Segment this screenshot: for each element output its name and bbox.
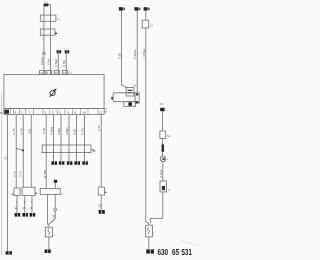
wire — [31, 196, 33, 213]
lamp box L1 — [14, 188, 20, 196]
svg-text:1.5rtsw: 1.5rtsw — [133, 48, 137, 59]
svg-text:5A: 5A — [167, 134, 170, 138]
connector A top — [119, 7, 125, 10]
wire label c5 lower — [44, 170, 48, 177]
control unit box — [4, 74, 104, 108]
lamp box L2 — [22, 187, 35, 195]
top pin connector 2 — [46, 71, 51, 75]
terminal stub — [55, 32, 57, 34]
ground connector pair 1 — [15, 213, 21, 217]
dark label — [52, 214, 56, 218]
wire — [161, 111, 163, 131]
wire — [43, 6, 45, 74]
wire label — [54, 59, 58, 67]
junction dot — [22, 149, 24, 151]
motor box M — [98, 187, 104, 195]
svg-text:0.75: 0.75 — [42, 128, 46, 134]
stub — [105, 191, 108, 193]
svg-text:31: 31 — [29, 206, 33, 210]
svg-text:0.5: 0.5 — [28, 129, 32, 134]
svg-text:31: 31 — [4, 156, 8, 160]
wire A label — [117, 52, 121, 58]
svg-text:0.75: 0.75 — [19, 128, 23, 134]
ground connector pair 3 — [30, 213, 36, 217]
strip stub — [91, 150, 94, 153]
wire label — [40, 56, 44, 65]
svg-text:0.5sw: 0.5sw — [159, 169, 163, 178]
stub L1 — [11, 193, 14, 195]
switch box S2 — [40, 188, 60, 194]
wire c10 — [84, 115, 86, 161]
top pin connector 3 — [54, 71, 59, 75]
svg-text:X12: X12 — [159, 103, 164, 106]
relay upper box — [126, 88, 134, 96]
wire B label — [133, 48, 137, 59]
svg-text:31: 31 — [22, 206, 26, 210]
wire C — [146, 28, 149, 225]
sensor box right — [160, 181, 167, 192]
wire c1 — [6, 115, 8, 252]
wire — [161, 139, 163, 156]
battery + terminal label — [45, 1, 49, 4]
wire C upper — [145, 11, 147, 21]
svg-text:0.75: 0.75 — [12, 171, 16, 177]
wire — [148, 237, 150, 249]
page left edge artifact — [1, 93, 3, 255]
top pin numbers — [40, 71, 66, 75]
wire c5 — [45, 115, 47, 189]
wire — [57, 53, 59, 74]
fuse F2 — [40, 29, 55, 35]
relay contacts — [128, 90, 133, 93]
wire label c4 — [28, 129, 32, 134]
wire label c6 — [50, 126, 54, 135]
ground connector pair — [45, 249, 51, 253]
top pin connector 4 — [62, 71, 67, 75]
svg-text:0.5gn: 0.5gn — [65, 127, 69, 135]
wire label — [97, 125, 101, 131]
dark label — [98, 204, 102, 208]
wire — [162, 162, 164, 181]
wire label — [62, 60, 66, 67]
svg-text:0.75: 0.75 — [12, 128, 16, 134]
svg-text:63065531: 63065531 — [157, 247, 191, 257]
ground box right — [146, 225, 153, 237]
svg-text:0.5br: 0.5br — [57, 128, 61, 135]
wire label — [159, 169, 163, 178]
svg-text:0.5rt: 0.5rt — [73, 129, 77, 135]
wire c4 — [30, 115, 32, 188]
connector K3 — [57, 50, 62, 53]
svg-text:0.5sw: 0.5sw — [40, 56, 44, 65]
wire below S2 b — [54, 194, 56, 207]
svg-text:0.5s: 0.5s — [117, 52, 121, 58]
black pin in attachment — [129, 102, 132, 105]
top pin connector 1 — [39, 71, 44, 75]
icon inside control unit — [50, 89, 57, 97]
svg-text:0.5sw: 0.5sw — [50, 126, 54, 135]
connector strip box — [42, 145, 91, 153]
corner pin wire — [100, 115, 102, 187]
svg-text:o +: o + — [45, 1, 49, 4]
fuse box C — [142, 20, 149, 28]
connector pair c6 — [51, 161, 57, 165]
wire — [16, 196, 18, 213]
wire c2 — [15, 115, 17, 188]
svg-text:F1: F1 — [57, 18, 61, 22]
connector C top — [144, 7, 150, 10]
part number — [157, 247, 191, 257]
svg-text:2.5rt: 2.5rt — [47, 59, 51, 65]
wire label c7 — [57, 128, 61, 135]
wire c9 — [76, 115, 78, 161]
bridge wire c2-c3 — [16, 148, 23, 150]
fuse box bottom left — [45, 227, 52, 237]
connector right chain — [160, 108, 164, 111]
svg-text:31: 31 — [14, 206, 18, 210]
svg-text:0.75: 0.75 — [97, 125, 101, 131]
connector pair c9 — [74, 161, 80, 165]
svg-text:0.5sw: 0.5sw — [142, 48, 146, 57]
wire label c8 — [65, 127, 69, 135]
stub L2 — [35, 192, 37, 194]
wire c7 — [60, 115, 62, 161]
wire label — [47, 59, 51, 65]
wire label c10 — [81, 127, 85, 135]
merge jog — [49, 211, 55, 224]
dark mark inside — [162, 186, 165, 190]
pin 1 dark marker — [4, 110, 9, 114]
wire C label — [142, 48, 146, 57]
bulb symbol — [160, 156, 166, 162]
wire below M — [100, 195, 102, 210]
connector K4 — [65, 50, 70, 53]
label tick c1 — [4, 156, 8, 160]
wire label c3 — [18, 171, 22, 177]
ground connector bottom left — [6, 251, 12, 254]
corner pin ticks — [104, 109, 107, 112]
fuse squiggle — [48, 228, 50, 235]
connector pair c7 — [59, 161, 65, 165]
wire B — [136, 11, 138, 93]
pin cell dividers — [11, 109, 98, 115]
wire A — [121, 11, 127, 88]
wire c6 — [53, 115, 55, 161]
relay right attachment — [135, 93, 139, 104]
node diamond — [54, 208, 57, 212]
connector right chain top label — [159, 103, 164, 106]
wire below S2 — [47, 194, 49, 224]
dark sleeve label — [162, 144, 165, 152]
svg-text:13: 13 — [99, 110, 103, 114]
wire — [150, 192, 163, 223]
pin strip bottom — [4, 109, 104, 115]
svg-text:0.75f: 0.75f — [44, 170, 48, 177]
wire label — [14, 206, 18, 210]
svg-text:0.75: 0.75 — [18, 171, 22, 177]
wire c3 — [22, 115, 24, 188]
relay label 30 — [134, 84, 137, 88]
svg-text:X1: X1 — [69, 71, 73, 75]
wire c8 — [68, 115, 70, 161]
ground terminal — [146, 249, 154, 253]
connector designator X — [69, 71, 73, 75]
connector pair c8 — [67, 161, 73, 165]
ground connector pair — [99, 210, 105, 214]
fuse F1 — [40, 15, 56, 21]
ground connector pair 2 — [22, 213, 28, 217]
inline connector on c5 branch — [54, 180, 57, 183]
connector pair c10 — [82, 161, 88, 165]
fuse box right — [160, 131, 166, 139]
pin ticks — [16, 200, 33, 204]
svg-text:14: 14 — [82, 110, 86, 114]
relay main box — [113, 93, 135, 102]
wire label c9 — [73, 129, 77, 135]
pin numbers — [15, 110, 103, 114]
arrow mark on wire — [42, 52, 45, 55]
far left pin stub — [0, 112, 2, 114]
wire from connector — [54, 183, 56, 189]
mark inside — [148, 227, 150, 234]
attachment pins — [136, 94, 138, 103]
connector at battery — [44, 4, 49, 7]
svg-text:0.5br: 0.5br — [62, 60, 66, 67]
svg-text:0.75s: 0.75s — [81, 127, 85, 135]
wire — [48, 5, 50, 75]
connector B top — [134, 7, 140, 10]
wire — [65, 53, 67, 74]
svg-text:0.5gn: 0.5gn — [54, 59, 58, 67]
relay lower attachment — [124, 102, 136, 107]
crease bottom right — [180, 241, 199, 246]
wire below fuse — [48, 237, 50, 249]
wire label c2 — [12, 171, 16, 177]
wire label c5 — [42, 128, 46, 134]
wire into fuse — [48, 224, 49, 227]
relay left stub — [111, 97, 113, 99]
wire — [24, 196, 26, 213]
